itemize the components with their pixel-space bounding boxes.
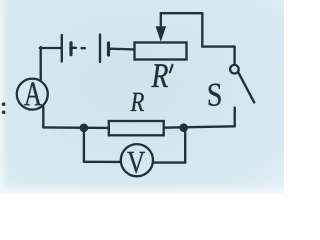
battery dash mark: [82, 47, 85, 49]
wire: voltmeter branch left vertical: [83, 128, 85, 162]
rheostat R' body: [135, 43, 187, 60]
switch S blade (open): [239, 73, 254, 102]
battery G cell-2 long plate: [99, 35, 101, 63]
node: right junction dot: [179, 123, 188, 132]
wire: bottom left segment: [43, 126, 109, 129]
rheostat R' slider arrow head: [156, 26, 167, 42]
voltmeter V body: [121, 144, 153, 176]
wire: switch bottom stub: [234, 108, 236, 127]
label A (ammeter): [24, 82, 42, 105]
wire: top-right vertical: [201, 13, 203, 46]
battery G cell-1 short plate: [69, 43, 72, 55]
wire: ammeter bottom stub: [42, 107, 44, 128]
label R' (rheostat): [151, 64, 168, 87]
wire: bottom right segment: [164, 126, 235, 127]
battery G cell-1 long plate: [61, 35, 63, 62]
text fragment ":" (cropped caption colon): [2, 102, 6, 106]
wire: left vertical (top corner down to ammeter top): [40, 47, 42, 81]
ammeter A body: [17, 79, 48, 110]
label V (voltmeter): [127, 152, 145, 173]
node: left junction dot: [80, 124, 89, 133]
label S (switch): [209, 84, 221, 106]
wire: horizontal to switch: [202, 45, 234, 47]
wire: voltmeter branch right horizontal: [153, 161, 185, 163]
battery G cell-2 short plate: [107, 43, 110, 55]
rheostat R' slider arrow shaft: [160, 13, 162, 30]
wire: battery to rheostat: [109, 48, 135, 51]
wire: voltmeter branch right vertical: [184, 128, 186, 163]
label R' prime mark: [170, 65, 173, 73]
wire: slider to top-right corner: [161, 12, 203, 14]
wire: top-left horizontal (corner to battery): [40, 47, 61, 49]
wire: voltmeter branch left horizontal: [84, 161, 121, 163]
label R (resistor): [130, 93, 144, 111]
resistor R body: [109, 121, 164, 135]
wire: down to switch pivot: [233, 47, 235, 65]
wire: battery cell-1 stub: [72, 47, 77, 49]
switch S pivot circle: [230, 65, 239, 74]
